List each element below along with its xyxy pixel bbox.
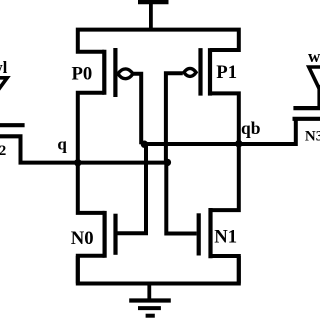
transistor N0	[78, 163, 116, 284]
N1 channel bar	[208, 208, 212, 258]
wire P0 gate to qb line (cross couple)	[132, 74, 142, 144]
P0 channel bar	[102, 50, 106, 95]
node q dot	[74, 159, 81, 166]
svg-text:P0: P0	[72, 63, 93, 84]
wire GND rail	[78, 256, 239, 284]
node qb dot	[235, 140, 242, 147]
P0 bubble	[118, 69, 133, 79]
transistor N1	[199, 144, 239, 284]
N1 drain wire from qb	[211, 144, 239, 210]
junction dot P0 gate / qb line	[141, 141, 148, 148]
P0 gate bar	[113, 48, 117, 97]
svg-text:N2: N2	[0, 143, 6, 159]
N0 channel bar	[102, 211, 106, 258]
P1 channel bar	[208, 48, 212, 96]
svg-text:wl: wl	[0, 58, 8, 77]
N1 gate bar	[197, 213, 201, 255]
ground	[129, 284, 171, 316]
transistor P1	[184, 48, 210, 96]
wire P1 drain to node qb	[210, 93, 239, 143]
transistor N3 (right access, cut by edge)	[293, 108, 320, 119]
wire cross vertical down to N0 gate	[117, 144, 146, 233]
wire VDD rail with P0/P1 source stubs	[78, 30, 239, 52]
N1 source wire to rail	[211, 256, 239, 284]
wl driver left (triangle, cut by edge)	[0, 78, 7, 125]
N0 gate bar	[113, 214, 117, 255]
N3 gate bar	[293, 106, 320, 110]
junction dot P1 gate / q line	[164, 159, 171, 166]
svg-text:N1: N1	[214, 226, 237, 247]
svg-text:P1: P1	[216, 62, 237, 83]
wire cross vertical down to N1 gate	[166, 163, 196, 234]
svg-text:q: q	[57, 134, 67, 153]
wire q line from N2 to cross point	[21, 136, 168, 162]
svg-text:N3: N3	[305, 128, 320, 144]
P1 gate bar	[198, 48, 202, 96]
wl driver right (triangle)	[309, 67, 320, 108]
P1 bubble	[184, 68, 196, 76]
wire P0 drain to node q	[78, 93, 105, 163]
N3 channel bar	[293, 117, 320, 121]
transistor P0	[104, 48, 133, 97]
svg-text:N0: N0	[71, 228, 94, 249]
svg-text:qb: qb	[241, 118, 261, 138]
transistor N2 (left access, cut by edge)	[0, 125, 25, 136]
N0 drain wire from q	[78, 163, 105, 213]
N0 source wire to rail	[78, 256, 105, 284]
N2 channel bar	[0, 134, 23, 138]
svg-text:wl: wl	[308, 47, 320, 66]
wire qb line from cross point to N3	[145, 119, 296, 144]
vdd symbol	[138, 0, 169, 30]
N2 gate bar	[0, 123, 25, 127]
wire P1 gate to q line (cross couple)	[166, 73, 183, 162]
